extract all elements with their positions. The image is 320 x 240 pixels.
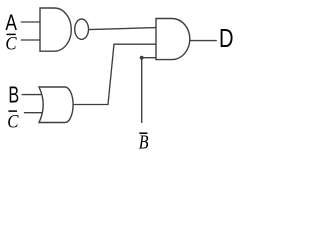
svg-text:A: A <box>5 10 17 35</box>
svg-text:C: C <box>7 111 19 132</box>
svg-text:B: B <box>139 132 149 154</box>
svg-text:D: D <box>219 23 234 53</box>
svg-text:B: B <box>8 81 19 107</box>
svg-text:C: C <box>5 33 17 54</box>
